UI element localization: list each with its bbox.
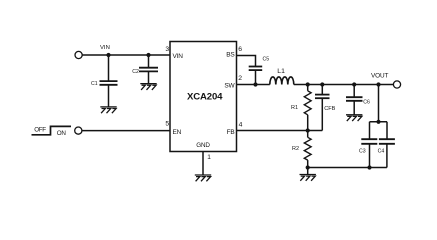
- junction C5/SW: [253, 82, 257, 86]
- junction CFB/rail: [320, 82, 324, 86]
- svg-text:FB: FB: [227, 129, 235, 136]
- junction C3C4 top: [376, 120, 380, 124]
- svg-text:VOUT: VOUT: [371, 72, 389, 79]
- svg-text:C4: C4: [378, 149, 385, 155]
- svg-text:R2: R2: [292, 146, 299, 152]
- junction C2/VIN: [146, 53, 150, 57]
- capacitor C1: [100, 55, 118, 107]
- svg-text:4: 4: [239, 122, 243, 129]
- svg-text:C6: C6: [363, 99, 370, 105]
- capacitor CFB: [315, 85, 330, 131]
- op-amp U1 XCA204 IC body: [170, 42, 237, 152]
- svg-text:C2: C2: [132, 69, 139, 75]
- svg-text:6: 6: [238, 46, 242, 53]
- svg-text:R1: R1: [291, 105, 298, 111]
- junction C3 bottom: [367, 165, 371, 169]
- svg-text:BS: BS: [226, 51, 235, 58]
- capacitor C3: [361, 139, 377, 167]
- wire output rail L1 to VOUT: [294, 84, 394, 86]
- junction C3C4/rail: [376, 82, 380, 86]
- junction R2/ground node: [306, 165, 310, 169]
- resistor R2: [304, 131, 311, 168]
- junction C6/rail: [352, 82, 356, 86]
- capacitor C6: [346, 85, 363, 115]
- svg-text:OFF: OFF: [34, 127, 46, 134]
- capacitor C5: [249, 67, 263, 85]
- svg-text:C5: C5: [263, 57, 270, 63]
- ground below R2: [307, 168, 309, 175]
- ground below C2: [140, 84, 156, 90]
- resistor R1: [304, 85, 311, 131]
- ground below C1: [100, 107, 116, 113]
- wire VIN rail: [82, 54, 170, 56]
- svg-text:SW: SW: [224, 82, 235, 89]
- svg-text:1: 1: [207, 154, 211, 161]
- svg-text:L1: L1: [277, 68, 285, 75]
- wire VOUT drop to C3/C4: [378, 85, 380, 122]
- terminal VOUT output: [393, 81, 400, 88]
- svg-text:ON: ON: [57, 130, 67, 137]
- terminal EN input: [75, 127, 82, 134]
- svg-text:5: 5: [165, 121, 169, 128]
- junction C1/VIN: [106, 53, 110, 57]
- wire BS pin to C5: [237, 56, 256, 67]
- switch OFF/ON step symbol: [32, 126, 72, 134]
- wire FB pin to R1/R2 node: [237, 130, 323, 132]
- terminal VIN input: [75, 51, 82, 58]
- wire SW pin to L1: [237, 84, 270, 86]
- svg-text:3: 3: [165, 46, 169, 53]
- svg-text:VIN: VIN: [173, 53, 184, 60]
- ground below C6: [346, 115, 362, 121]
- ground below IC: [195, 175, 211, 181]
- svg-text:CFB: CFB: [324, 106, 335, 112]
- capacitor C2: [139, 55, 158, 83]
- wire C3/C4 top bus: [370, 122, 388, 139]
- wire EN to pin 5: [82, 130, 170, 132]
- junction FB node: [306, 128, 310, 132]
- wire GND pin stem: [202, 152, 204, 175]
- svg-text:C1: C1: [91, 81, 98, 87]
- svg-text:GND: GND: [196, 142, 210, 149]
- svg-text:C3: C3: [359, 149, 366, 155]
- wire bottom return: [308, 167, 387, 169]
- svg-text:EN: EN: [173, 129, 182, 136]
- inductor L1: [270, 77, 294, 85]
- junction R1/rail: [306, 82, 310, 86]
- capacitor C4: [379, 139, 395, 167]
- svg-text:2: 2: [238, 75, 242, 82]
- svg-text:XCA204: XCA204: [187, 92, 223, 103]
- svg-text:VIN: VIN: [100, 45, 110, 51]
